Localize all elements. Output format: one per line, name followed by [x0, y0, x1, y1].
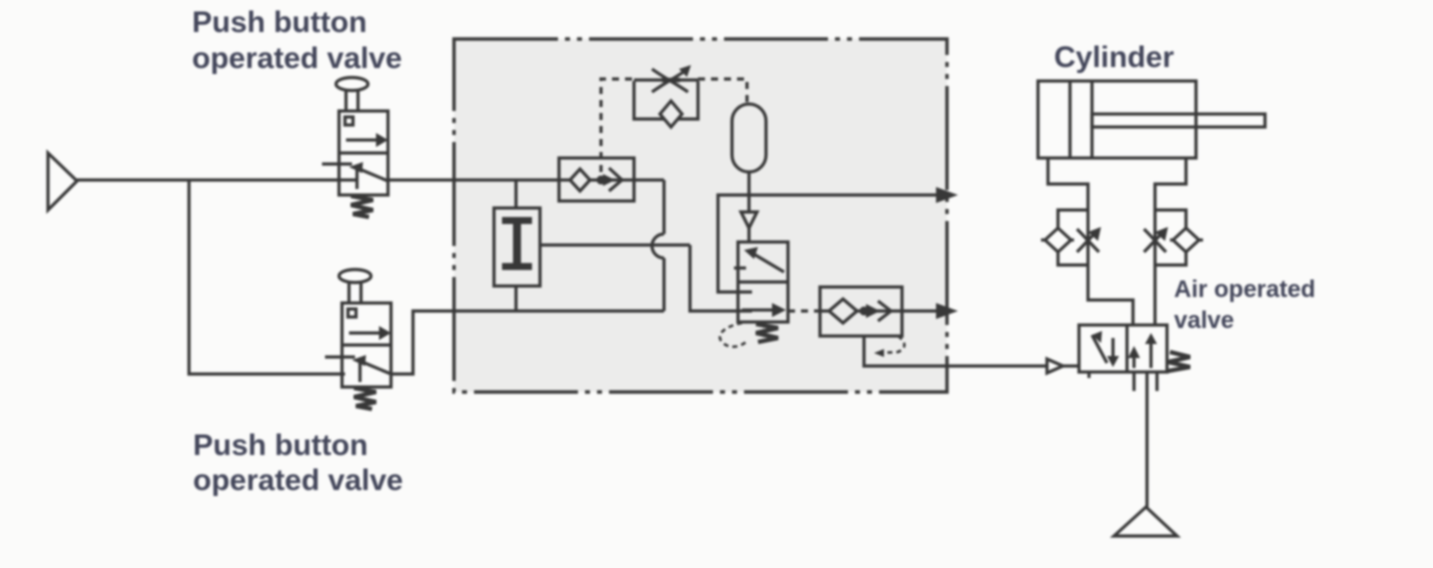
wire: CV1 out, down with hop over piston wire	[634, 180, 664, 311]
spring V1	[351, 196, 373, 217]
throttle check combo (speed ctrl on pilot line)	[634, 65, 698, 127]
wire: piston bottom to lower bus	[514, 286, 517, 311]
wire: CV2 to output arrow 2	[902, 309, 937, 312]
svg-text:Push button: Push button	[193, 429, 368, 462]
dashed pilot loop TV1	[720, 323, 748, 347]
pilot dashed line from CV1 node	[601, 79, 747, 172]
output arrow 1	[936, 187, 958, 203]
wire: SC2 down to valve	[1153, 265, 1156, 325]
node: junction into comparator piston	[514, 180, 517, 208]
wire: accumulator down to timer valve, hollow arrow	[747, 172, 750, 212]
accumulator A1	[732, 104, 766, 172]
svg-text:Air operated: Air operated	[1174, 276, 1315, 303]
svg-text:operated valve: operated valve	[192, 42, 402, 75]
svg-text:operated valve: operated valve	[193, 464, 403, 497]
svg-text:Push button: Push button	[192, 6, 367, 39]
spring TV1	[756, 324, 778, 342]
push button operated valve V2	[342, 303, 391, 387]
dashed wire TV1 to CV2	[788, 309, 820, 312]
wire: V2 output up into enclosure	[391, 311, 664, 374]
svg-text:valve: valve	[1174, 307, 1234, 334]
output arrow 2	[936, 303, 958, 319]
speed controller SC1	[1041, 210, 1101, 265]
blocked port T mark V1	[355, 170, 358, 189]
dashed pilot hook CV2	[880, 336, 904, 353]
check valve unit CV2	[820, 287, 902, 336]
check valve unit CV1	[556, 158, 634, 201]
cylinder C1	[1038, 81, 1265, 158]
exhaust stubs AV1	[1089, 372, 1157, 391]
push button actuator V2	[339, 270, 371, 304]
air operated valve AV1	[1079, 325, 1167, 372]
timer unit enclosure (dash-dot box)	[454, 39, 947, 392]
push button operated valve V1	[339, 111, 388, 195]
exhaust stub V2	[325, 355, 355, 358]
wire: valve port A up to output arrow 1	[718, 195, 937, 292]
speed controller SC2	[1144, 210, 1203, 265]
wire: V1 output into enclosure to check unit	[388, 178, 556, 181]
comparator piston P1	[494, 208, 540, 286]
wire: SC1 down to valve	[1088, 265, 1133, 325]
pilot arrowhead into AV1	[1047, 359, 1063, 373]
wire: supply line down to source triangle	[1145, 372, 1148, 507]
air supply source triangle	[48, 153, 77, 210]
wire: main supply line to valve V1	[77, 178, 356, 181]
wire: cylinder right port staircase	[1155, 158, 1186, 210]
timer valve TV1	[734, 242, 788, 322]
supply triangle bottom	[1114, 507, 1177, 536]
wire: piston mid output	[540, 245, 752, 311]
wire: cylinder left port staircase	[1048, 158, 1088, 210]
spring AV1	[1168, 352, 1190, 371]
svg-text:Cylinder: Cylinder	[1054, 41, 1174, 74]
spring V2	[354, 388, 376, 409]
wire: CV2 bottom to air operated valve pilot	[864, 336, 1047, 366]
wire: branch down to valve V2	[189, 180, 345, 374]
exhaust stub V1	[322, 162, 352, 165]
push button actuator V1	[336, 78, 368, 112]
blocked port T mark V2	[358, 363, 361, 382]
